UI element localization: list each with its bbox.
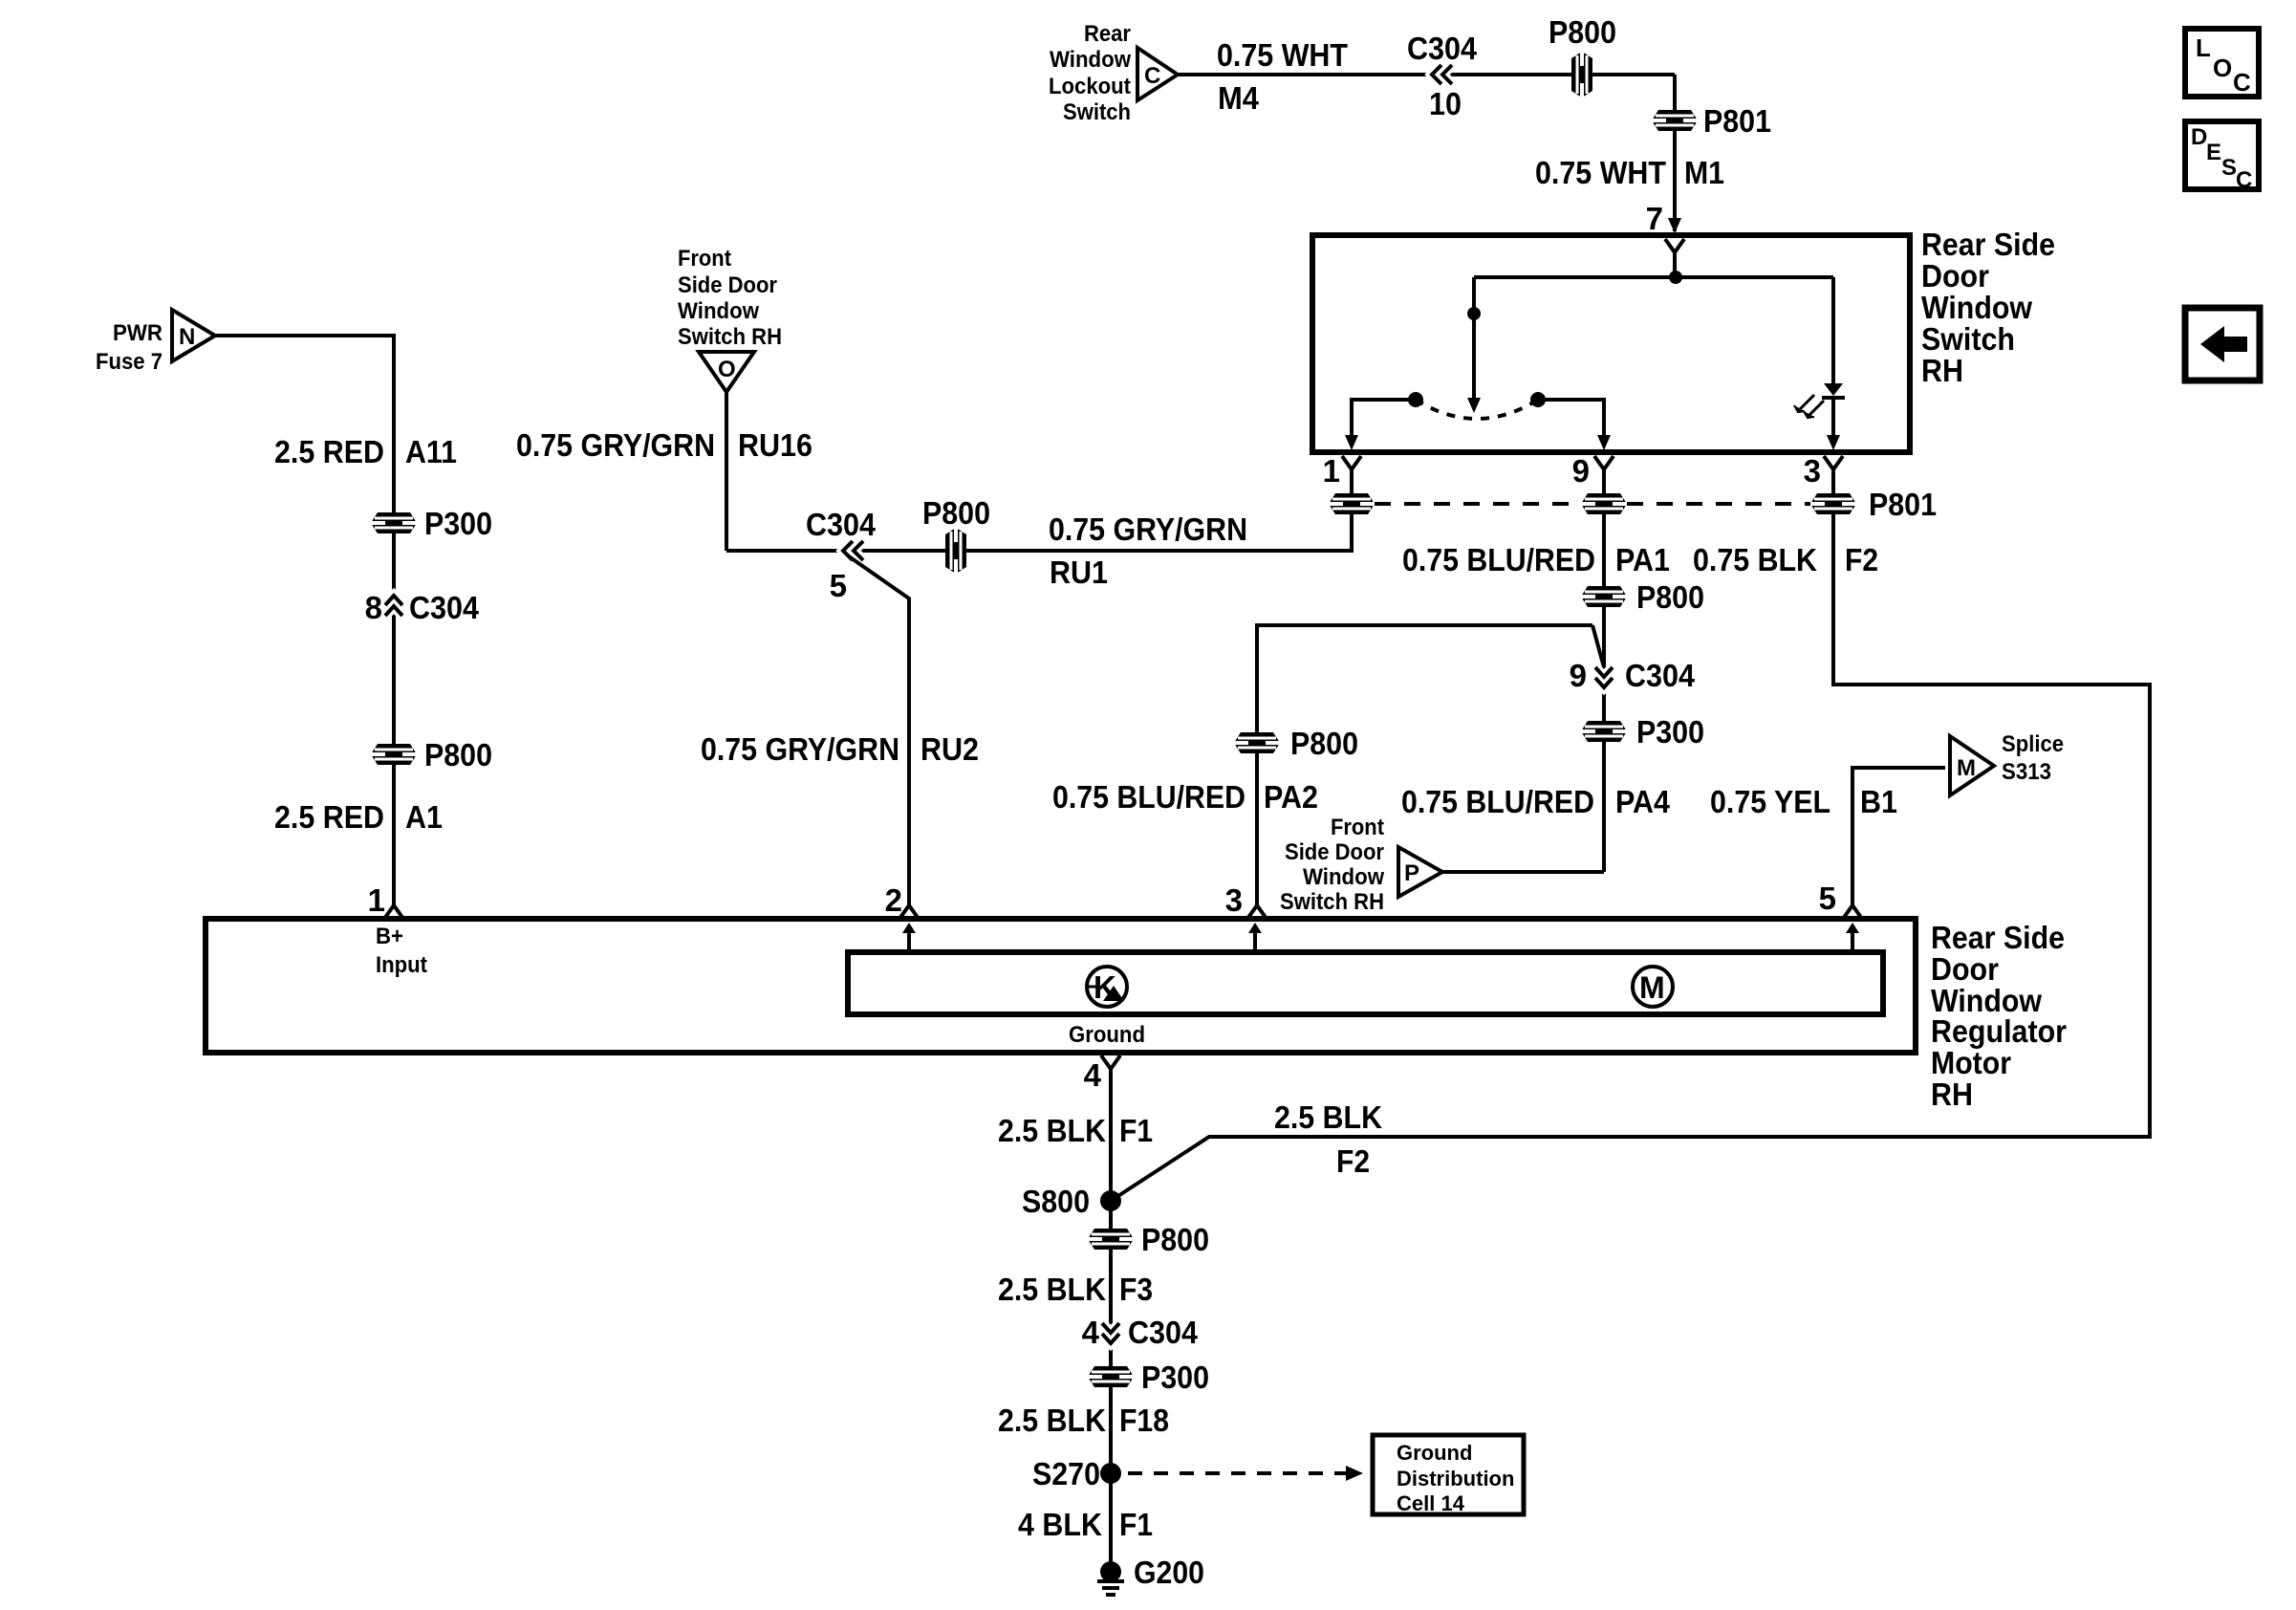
svg-text:C304: C304 [1625,658,1696,693]
svg-text:Switch RH: Switch RH [1280,889,1384,915]
label PWR Fuse 7 [96,320,162,375]
terminal pin 3 motor [1247,905,1267,919]
motor symbol M [1633,967,1673,1007]
terminal pin 3 below switch [1824,456,1843,493]
wire A11 2.5 RED [215,336,394,905]
svg-text:O: O [718,357,736,382]
svg-text:0.75 GRY/GRN: 0.75 GRY/GRN [701,731,899,767]
svg-text:4: 4 [1084,1057,1102,1093]
connector C304 pin 8 chevrons [385,596,402,616]
svg-text:RU2: RU2 [921,731,979,767]
terminal pin 1 below switch [1342,456,1361,493]
svg-text:0.75 GRY/GRN: 0.75 GRY/GRN [1049,511,1247,547]
LED branch wire [1831,277,1835,384]
svg-text:2.5 BLK: 2.5 BLK [998,1272,1106,1307]
svg-text:0.75 WHT: 0.75 WHT [1217,37,1348,73]
svg-text:M4: M4 [1218,80,1260,116]
connector triangle C (Rear Window Lockout Switch) [1137,48,1178,100]
svg-text:Rear: Rear [1084,21,1131,47]
svg-text:3: 3 [1225,882,1243,918]
LED indicator [1822,383,1845,398]
svg-text:10: 10 [1429,86,1462,121]
svg-text:O: O [2213,54,2232,82]
svg-text:2.5 BLK: 2.5 BLK [998,1403,1106,1438]
inline connector P801 (on M1 wire) [1652,110,1698,131]
svg-text:Front: Front [1331,815,1384,840]
legend box DESC [2185,121,2259,189]
svg-text:F1: F1 [1119,1113,1153,1148]
pass-through connector P800 (top wire) [1571,52,1592,98]
splice node S800 [1100,1190,1121,1211]
svg-text:P800: P800 [922,495,990,531]
wire contact right to pin 9 [1538,400,1604,438]
svg-text:0.75 BLK: 0.75 BLK [1693,542,1817,577]
svg-text:Switch: Switch [1921,321,2015,357]
circuit breaker symbol K [1087,967,1127,1007]
connector P801 pin 9 [1581,493,1627,514]
svg-text:Regulator: Regulator [1931,1013,2067,1049]
svg-text:Fuse 7: Fuse 7 [96,349,162,375]
svg-text:Switch: Switch [1063,99,1131,125]
connector C304 pin 10 chevrons [1432,65,1452,84]
inline connector P800 (PA2 wire) [1234,732,1280,753]
svg-text:Rear Side: Rear Side [1931,920,2065,955]
switch throw dashed arc [1416,400,1538,419]
svg-text:RU16: RU16 [738,427,812,463]
inline connector P800 (ground chain) [1088,1229,1134,1250]
svg-text:F3: F3 [1119,1272,1153,1307]
wire RU16 0.75 GRY/GRN [725,392,728,551]
dashed harness line P801 [1375,502,1810,506]
svg-text:C304: C304 [806,507,877,542]
svg-text:B+: B+ [376,924,403,949]
svg-text:PA1: PA1 [1615,542,1670,577]
svg-text:M1: M1 [1684,155,1724,190]
svg-text:Side Door: Side Door [678,272,777,298]
svg-text:2.5 RED: 2.5 RED [274,434,384,469]
svg-text:P801: P801 [1869,487,1937,522]
svg-text:G200: G200 [1134,1555,1204,1590]
svg-text:2.5 RED: 2.5 RED [274,799,384,835]
label Rear Window Lockout Switch [1049,21,1131,125]
power feed triangle N (PWR Fuse 7) [172,310,215,361]
svg-text:A11: A11 [405,434,457,469]
svg-text:N: N [179,324,195,350]
svg-text:PA4: PA4 [1615,784,1671,819]
svg-text:E: E [2206,140,2221,165]
arrow switch wiper [1467,398,1481,413]
svg-text:RH: RH [1921,353,1963,388]
svg-text:0.75 BLU/RED: 0.75 BLU/RED [1401,784,1594,819]
svg-text:Lockout: Lockout [1049,74,1131,99]
svg-text:P300: P300 [424,506,492,541]
wire RU2 0.75 GRY/GRN [849,556,909,905]
svg-text:L: L [2196,33,2211,62]
arrow to pin 3 [1827,435,1840,450]
svg-text:B1: B1 [1860,784,1897,819]
internal wire bus of switch [1474,275,1833,279]
reference box Ground Distribution Cell 14 [1373,1435,1524,1514]
connector triangle P (Front Side Door Window Switch RH) [1398,847,1442,897]
svg-text:1: 1 [1323,453,1340,489]
svg-text:P800: P800 [1290,726,1358,761]
svg-text:Side Door: Side Door [1285,839,1384,865]
svg-text:9: 9 [1570,658,1587,693]
svg-text:P800: P800 [1549,14,1616,50]
pass-through connector P800 (RU1 wire) [945,528,966,574]
svg-text:F1: F1 [1119,1507,1153,1542]
connector C304 pin 4 chevrons [1102,1323,1119,1343]
svg-text:D: D [2191,124,2207,150]
svg-text:P300: P300 [1636,714,1704,750]
terminal pin 7 inside switch [1665,239,1684,277]
legend box LOC [2185,29,2259,97]
wire PA2 0.75 BLU/RED [1257,625,1592,905]
junction node at pin7 feed [1669,271,1682,284]
svg-text:2: 2 [885,882,902,918]
ground symbol G200 [1097,1561,1124,1595]
svg-text:Ground: Ground [1397,1441,1472,1465]
svg-text:Window: Window [1050,47,1131,73]
switch contact node left [1408,392,1423,407]
component box Rear Side Door Window Regulator Motor RH [206,919,1916,1053]
svg-text:0.75 BLU/RED: 0.75 BLU/RED [1402,542,1595,577]
svg-text:P800: P800 [424,737,492,772]
svg-text:0.75 WHT: 0.75 WHT [1535,155,1666,190]
inline connector P300 (left chain) [371,512,417,533]
wire F2 2.5 BLK long run [1111,513,2150,1201]
legend label DESC [2191,124,2252,193]
svg-text:P800: P800 [1141,1222,1209,1257]
svg-text:S: S [2221,155,2237,181]
terminal pin 2 motor [899,905,919,919]
dashed reference arrow to Ground Distribution [1128,1466,1363,1481]
svg-text:PWR: PWR [113,320,162,346]
svg-text:P: P [1404,860,1419,886]
connector triangle O (Front Side Door Window Switch RH) [699,352,754,392]
splice triangle M (Splice S313) [1950,736,1994,795]
wire PA4 to triangle P [1442,870,1604,874]
svg-text:F2: F2 [1845,542,1878,577]
branch jog PA2 to C304 [1592,625,1604,667]
arrow pin 2 internal [902,923,916,952]
switch common branch wire [1472,277,1476,402]
svg-text:S313: S313 [2002,759,2051,785]
component box Rear Side Door Window Switch RH [1312,235,1910,452]
LED wire to pin 3 [1831,398,1835,438]
label Rear Side Door Window Regulator Motor RH [1931,920,2067,1112]
wire M1 0.75 WHT vertical [1673,75,1677,231]
svg-text:Front: Front [678,246,731,272]
legend back-arrow icon [2200,326,2247,362]
label B+ Input [376,924,427,978]
svg-text:PA2: PA2 [1264,779,1318,815]
wire contact left to pin 1 [1352,400,1416,438]
svg-text:Ground: Ground [1069,1022,1145,1048]
svg-text:Window: Window [1921,290,2032,325]
svg-text:7: 7 [1646,201,1663,236]
wire F1 2.5 BLK [1109,1069,1113,1572]
svg-text:S270: S270 [1032,1456,1100,1491]
svg-text:F18: F18 [1119,1403,1169,1438]
arrow to pin 1 [1345,435,1358,450]
svg-text:0.75 YEL: 0.75 YEL [1710,784,1830,819]
svg-text:M: M [1957,755,1976,781]
legend box back-arrow [2185,308,2260,381]
svg-text:4: 4 [1082,1315,1100,1350]
svg-text:Distribution: Distribution [1397,1467,1514,1490]
label Splice S313 [2002,731,2064,785]
svg-text:5: 5 [1819,881,1836,916]
arrow into switch pin 7 [1668,218,1681,233]
inline connector P800 (left chain) [371,744,417,765]
svg-text:C: C [2236,167,2252,193]
svg-text:Window: Window [1303,864,1384,890]
svg-text:F2: F2 [1336,1143,1370,1179]
label Front Side Door Window Switch RH (top) [678,246,782,350]
svg-text:2.5 BLK: 2.5 BLK [1274,1099,1382,1135]
wire M4 0.75 WHT horizontal [1178,73,1675,76]
junction node on common branch [1467,307,1481,320]
arrow to pin 9 [1597,435,1611,450]
svg-text:Splice: Splice [2002,731,2064,757]
svg-text:C304: C304 [1407,31,1478,66]
svg-text:Cell 14: Cell 14 [1397,1491,1465,1515]
arrow pin 5 internal [1846,923,1859,952]
svg-text:Input: Input [376,952,427,978]
terminal pin 4 motor [1101,1055,1120,1069]
svg-text:S800: S800 [1022,1184,1090,1219]
inline connector P300 (PA4 wire) [1581,721,1627,742]
label Front Side Door Window Switch RH (P) [1280,815,1384,915]
arrow pin 3 internal [1248,923,1262,952]
svg-text:9: 9 [1572,453,1590,489]
inline connector P800 (PA1 wire) [1581,586,1627,607]
svg-text:1: 1 [368,882,385,918]
svg-text:5: 5 [830,568,847,603]
terminal pin 5 motor [1843,905,1862,919]
connector C304 pin 9 chevrons [1595,667,1613,687]
wire RU1 0.75 GRY/GRN horizontal [726,513,1352,551]
inline connector P300 (ground chain) [1088,1366,1134,1387]
svg-text:M: M [1639,970,1665,1005]
connector C304 pin 5 chevrons [843,541,863,560]
svg-text:Door: Door [1931,951,1999,987]
svg-text:3: 3 [1804,453,1821,489]
svg-text:Window: Window [678,298,759,324]
switch contact node right [1530,392,1546,407]
svg-text:C304: C304 [1128,1315,1199,1350]
svg-text:0.75 GRY/GRN: 0.75 GRY/GRN [516,427,715,463]
svg-text:P800: P800 [1636,579,1704,615]
svg-text:8: 8 [365,590,382,625]
inner box motor assembly [848,952,1883,1014]
svg-text:C: C [2233,68,2251,97]
svg-text:P300: P300 [1141,1360,1209,1395]
svg-text:Rear Side: Rear Side [1921,227,2055,262]
label Rear Side Door Window Switch RH [1921,227,2055,388]
connector P801 pin 3 [1810,493,1856,514]
label Ground Distribution Cell 14 [1397,1441,1514,1515]
svg-text:RU1: RU1 [1050,555,1108,590]
svg-text:Motor: Motor [1931,1045,2011,1080]
svg-text:RH: RH [1931,1077,1973,1112]
svg-text:Switch RH: Switch RH [678,324,782,350]
legend label LOC [2196,33,2251,97]
splice node S270 [1100,1463,1121,1484]
connector P801 pin 1 [1329,493,1375,514]
terminal pin 9 below switch [1594,456,1614,493]
terminal pin 1 motor [384,905,403,919]
svg-text:A1: A1 [405,799,443,835]
wire B1 0.75 YEL [1852,768,1945,905]
svg-text:2.5 BLK: 2.5 BLK [998,1113,1106,1148]
svg-text:Door: Door [1921,258,1989,294]
svg-text:4 BLK: 4 BLK [1018,1507,1102,1542]
svg-text:C304: C304 [409,590,480,625]
svg-text:0.75 BLU/RED: 0.75 BLU/RED [1052,779,1245,815]
svg-text:P801: P801 [1703,103,1771,139]
wire PA1 0.75 BLU/RED [1602,513,1606,872]
svg-text:C: C [1144,63,1160,89]
LED emission marks [1794,395,1824,418]
